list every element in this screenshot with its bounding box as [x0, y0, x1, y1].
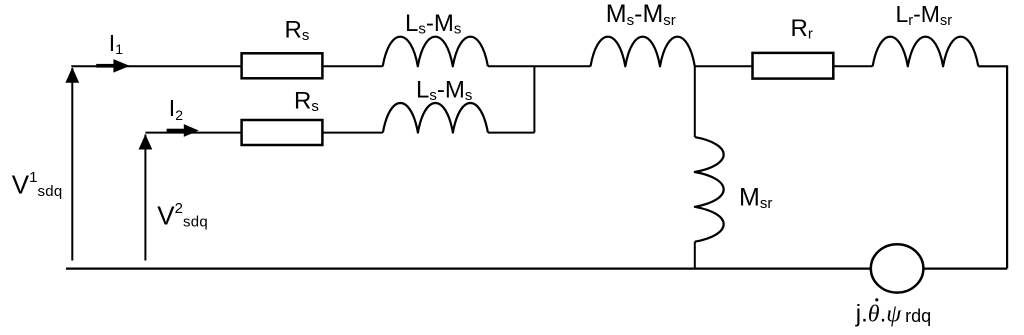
inductor Ls-Ms coil (branch 2): [383, 103, 488, 133]
svg-text:j.θ.ψrdq: j.θ.ψrdq: [855, 301, 931, 328]
source circle j.theta.psi_rdq: [871, 244, 924, 292]
inductor Msr vertical coil: [695, 137, 724, 242]
svg-text:Rr: Rr: [791, 15, 813, 43]
voltage arrow V1 head: [65, 67, 79, 83]
svg-text:V1sdq: V1sdq: [12, 169, 63, 200]
voltage arrow V2 line: [144, 135, 146, 261]
current arrow I1: [96, 59, 130, 73]
svg-text:Rs: Rs: [294, 88, 319, 116]
svg-text:Rs: Rs: [285, 17, 310, 45]
wire Msr branch lower segment: [694, 242, 696, 269]
wire Msr branch upper segment: [694, 66, 696, 137]
svg-text:I2: I2: [169, 95, 183, 123]
voltage arrow V2 head: [139, 134, 153, 149]
svg-text:Lr-Msr: Lr-Msr: [896, 1, 953, 29]
theta dot accent: [875, 298, 878, 301]
svg-text:V2sdq: V2sdq: [157, 200, 208, 231]
svg-text:Msr: Msr: [739, 184, 772, 213]
wire top right corner: [978, 66, 1007, 268]
resistor Rr box: [753, 53, 834, 79]
resistor Rs box (branch 1): [242, 53, 323, 78]
wire node to Rr: [695, 65, 753, 67]
inductor Lr-Msr coil: [873, 37, 979, 67]
svg-text:Ms-Msr: Ms-Msr: [606, 0, 676, 29]
wire bottom rail: [66, 268, 1007, 270]
wire junction vertical joining branch 2 to branch 1: [533, 66, 535, 132]
inductor Ls-Ms coil (branch 1): [383, 37, 488, 67]
resistor Rs box (branch 2): [242, 120, 323, 145]
wire branch2 inductor to junction: [488, 132, 535, 134]
wire stator branch 2: [145, 132, 383, 134]
voltage arrow V1 line: [71, 68, 73, 261]
current arrow I2: [167, 124, 199, 137]
wire top stator branch 1: [71, 65, 382, 67]
inductor Ms-Msr coil: [591, 37, 695, 67]
wire Rr to Lr-Msr: [833, 65, 873, 67]
wire top between Ls-Ms and Ms-Msr through junction: [488, 65, 591, 67]
svg-text:I1: I1: [109, 30, 123, 57]
svg-text:Ls-Ms: Ls-Ms: [405, 10, 461, 38]
svg-text:Ls-Ms: Ls-Ms: [416, 76, 472, 104]
